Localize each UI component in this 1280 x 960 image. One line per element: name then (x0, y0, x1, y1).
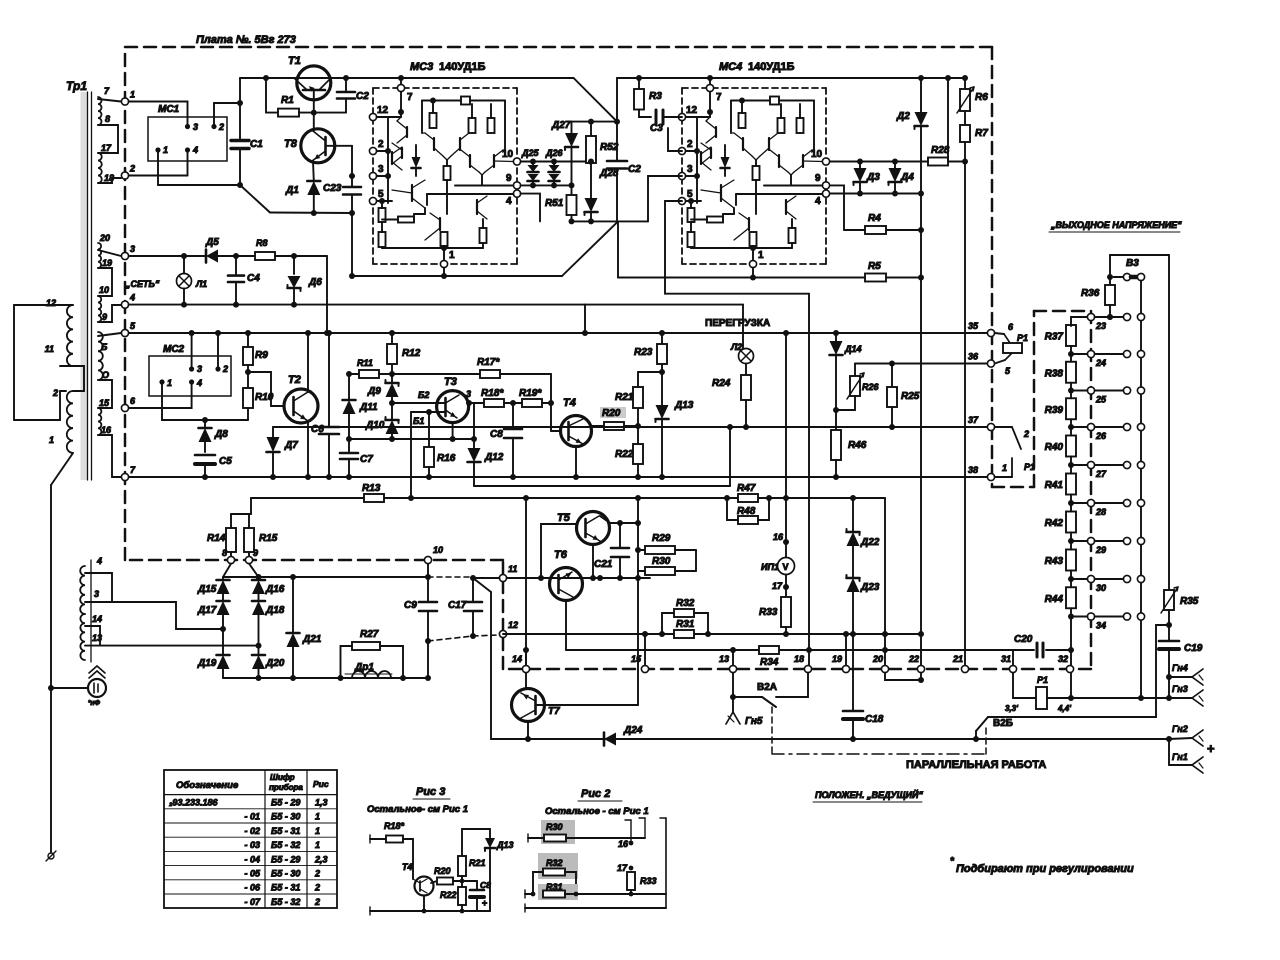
wire МС2 pin3 up (191, 333, 193, 369)
svg-text:R39: R39 (1045, 405, 1064, 416)
board pin 2 (left) (121, 172, 128, 179)
svg-text:8: 8 (105, 114, 110, 124)
svg-text:13: 13 (719, 654, 729, 664)
svg-text:R31: R31 (676, 619, 695, 630)
svg-text:R42: R42 (1045, 518, 1064, 529)
resistor R19* (513, 402, 522, 404)
row 30 wire (1071, 578, 1087, 580)
board pin 35 (right) (987, 329, 994, 336)
wire Б2 row (392, 402, 446, 404)
wire R14/R15 riser (250, 498, 252, 514)
board pin 12 (499, 630, 506, 637)
svg-text:1: 1 (1002, 463, 1007, 473)
wire МС3 pin10 row (521, 161, 591, 163)
svg-text:Б5 - 29: Б5 - 29 (271, 798, 300, 808)
wire y=486 line (474, 485, 730, 487)
wire bottom rail 739 (491, 738, 1169, 740)
svg-text:С3: С3 (650, 123, 663, 134)
svg-text:R13: R13 (362, 483, 381, 494)
svg-text:Т5: Т5 (557, 512, 571, 524)
wire pins 20-22 jumper (885, 673, 921, 680)
wire rail 37 (y=427) (273, 426, 991, 428)
wire МС4 pin10 row (831, 161, 928, 163)
wire pin 14 column up (525, 650, 527, 665)
svg-text:1: 1 (758, 250, 764, 261)
svg-text:R20: R20 (602, 408, 621, 419)
svg-text:20: 20 (99, 233, 110, 243)
svg-text:С17: С17 (448, 600, 467, 611)
svg-text:7: 7 (716, 92, 722, 103)
resistor R30 (638, 570, 645, 572)
resistor R22 (Рис3) (461, 881, 463, 887)
Гн4 connector (1166, 674, 1172, 680)
svg-text:R20: R20 (434, 866, 451, 876)
svg-text:Тр1: Тр1 (66, 79, 87, 93)
wire МС4 pin5 down (665, 201, 809, 294)
svg-text:Плата №. 5Вг 273: Плата №. 5Вг 273 (196, 34, 296, 46)
svg-text:ПЕРЕГРУЗКА: ПЕРЕГРУЗКА (705, 318, 770, 329)
svg-text:Подбирают при регулировании: Подбирают при регулировании (956, 863, 1134, 875)
wire Т2 emitter down (307, 421, 309, 477)
svg-text:22: 22 (908, 654, 919, 664)
resistor R10 (243, 388, 253, 408)
transistor Т4 (Рис3) (415, 877, 434, 896)
terminal 24 (1087, 350, 1094, 357)
wire x=638 column (637, 498, 639, 578)
svg-text:Рис 3: Рис 3 (416, 786, 445, 798)
svg-text:R21: R21 (469, 858, 486, 868)
МС3 internal circuit (400, 92, 402, 117)
svg-text:Гн5: Гн5 (745, 716, 763, 727)
svg-text:R33: R33 (640, 876, 657, 886)
diode Д17 (222, 594, 224, 601)
wire Б1 drop (410, 412, 412, 498)
wire Т5 base (541, 524, 577, 578)
svg-text:R1: R1 (281, 95, 294, 106)
resistor R26 trimmer (854, 364, 856, 377)
diode Д12 (473, 403, 475, 439)
resistor R33 (785, 587, 787, 597)
Тр1 secondary winding 7-8 (98, 97, 102, 125)
op-amp МС3 dashed box (373, 87, 517, 89)
svg-text:R24: R24 (712, 378, 731, 389)
svg-text:Д17: Д17 (197, 605, 217, 616)
svg-text:R7: R7 (975, 128, 988, 139)
resistor R25 (891, 364, 893, 388)
capacitor C20 (1013, 649, 1034, 651)
svg-text:24: 24 (1095, 358, 1106, 368)
wire Т8 collector (313, 113, 315, 131)
resistor R13 (364, 494, 384, 502)
svg-text:Гн4: Гн4 (1172, 663, 1188, 673)
svg-text:Д15: Д15 (197, 584, 217, 595)
svg-text:МС4: МС4 (719, 61, 742, 73)
svg-text:27: 27 (1095, 469, 1107, 479)
svg-text:R23: R23 (634, 347, 653, 358)
svg-text:1: 1 (167, 378, 172, 388)
svg-text:4: 4 (196, 378, 202, 388)
tap 16 to pin 7 (98, 435, 121, 477)
svg-text:3: 3 (193, 122, 198, 132)
wire row3 drop at x=327 (326, 256, 328, 333)
svg-text:R32: R32 (676, 598, 695, 609)
terminal 23 (1087, 313, 1094, 320)
board pin 19 (bottom) (842, 665, 849, 672)
svg-text:- 04: - 04 (244, 854, 260, 864)
svg-text:1: 1 (315, 812, 320, 822)
selector bus vertical (1140, 281, 1142, 698)
МС2 pin 4 (189, 379, 194, 384)
svg-text:Б5 - 31: Б5 - 31 (271, 826, 300, 836)
wire pin8 to bridge (223, 564, 231, 577)
selector top wire (1110, 254, 1169, 256)
svg-text:Др1: Др1 (354, 662, 374, 673)
МС3 pin 2 (369, 147, 376, 154)
svg-text:17: 17 (772, 581, 783, 591)
wire x=809 drop (808, 294, 810, 669)
resistor R5 (865, 274, 886, 282)
svg-text:4,4': 4,4' (1057, 704, 1072, 713)
МС2 pin 1 (159, 379, 164, 384)
transistor Т3 (437, 391, 469, 423)
svg-text:34: 34 (1096, 621, 1106, 631)
МС4 internal circuit (709, 92, 711, 117)
ground terminal ø (48, 853, 54, 859)
svg-text:R27: R27 (360, 629, 379, 640)
svg-text:2: 2 (378, 139, 384, 150)
svg-text:8: 8 (222, 548, 227, 558)
svg-text:Д21: Д21 (302, 634, 322, 645)
link О-15 (98, 380, 112, 408)
diode Д28 (585, 198, 598, 212)
transformer core (81, 92, 88, 480)
output bus vertical right (1168, 255, 1170, 590)
svg-text:2: 2 (314, 897, 320, 907)
svg-text:R41: R41 (1045, 480, 1064, 491)
Тр1 secondary winding Б-О (98, 332, 103, 380)
diode Д23 (852, 546, 854, 578)
Тр1 primary winding I (pins 12,11) (67, 305, 73, 366)
resistor R23 (661, 333, 663, 344)
wire pin 13 column (732, 650, 734, 665)
svg-text:Р1: Р1 (1024, 462, 1035, 472)
svg-text:Шифр: Шифр (270, 773, 295, 782)
svg-text:МС2: МС2 (163, 344, 185, 355)
Тр1 secondary winding 17-18 (98, 153, 102, 183)
svg-text:Д2: Д2 (896, 111, 910, 122)
svg-text:Д9: Д9 (367, 386, 381, 397)
svg-text:С5: С5 (219, 456, 232, 467)
wire rail 5 (y=333) (129, 332, 991, 334)
svg-text:12: 12 (508, 620, 518, 630)
svg-text:15: 15 (99, 398, 110, 408)
svg-text:R4: R4 (868, 213, 881, 224)
board pin 5 (left) (121, 329, 128, 336)
svg-text:³нФ: ³нФ (88, 700, 101, 707)
wire pin31 column (1012, 650, 1014, 665)
link 8-17 (98, 125, 118, 153)
wire ground lead down (50, 485, 52, 688)
board pin 18 (bottom) (804, 665, 811, 672)
connector symbol (plug) bottom-left (88, 679, 106, 697)
svg-text:21: 21 (952, 654, 963, 664)
svg-text:С23: С23 (323, 183, 342, 194)
resistor R37 (1066, 325, 1076, 346)
svg-text:Д20: Д20 (265, 658, 285, 669)
capacitor C21 (619, 523, 621, 548)
svg-text:Д26: Д26 (545, 148, 564, 158)
svg-text:Б5 - 32: Б5 - 32 (271, 840, 300, 850)
svg-text:1: 1 (315, 826, 320, 836)
wire Т7 emitter down (527, 722, 529, 740)
svg-text:9: 9 (506, 173, 512, 184)
Тр1 primary link 11-2 (73, 366, 84, 391)
svg-text:Т2: Т2 (288, 374, 301, 386)
dashed В2А drop (771, 707, 773, 754)
svg-text:R51: R51 (545, 198, 564, 209)
svg-text:Д10: Д10 (365, 420, 385, 431)
wire pin31 below to P1 row (1012, 673, 1014, 698)
svg-text:С21: С21 (594, 559, 613, 570)
wire R17 drop to Т4 base (550, 374, 552, 431)
wire rail 650 (R34 row) (566, 649, 1013, 651)
svg-text:- 03: - 03 (244, 840, 260, 850)
svg-text:1: 1 (130, 90, 135, 100)
wire МС4 pin7 to rail (709, 78, 711, 84)
Тр1 secondary winding 20-19 (98, 243, 101, 268)
board pin 9 (245, 556, 252, 563)
svg-text:Б5 - 29: Б5 - 29 (271, 854, 300, 864)
wire x=885 drop to pin 20 (884, 498, 886, 669)
svg-text:3,3': 3,3' (1005, 704, 1019, 713)
wire bottom node row (270, 212, 352, 215)
svg-text:Л1: Л1 (195, 279, 207, 289)
resistor R47 (724, 495, 730, 501)
svg-text:Д24: Д24 (623, 725, 643, 736)
svg-text:2: 2 (218, 122, 224, 132)
svg-text:Б5 - 30: Б5 - 30 (271, 869, 300, 879)
Рис2 right rail (665, 818, 667, 908)
relay Р1 coil contact 6-5 (995, 333, 1004, 334)
МС4 pin 5 (678, 197, 685, 204)
capacitor C23 (351, 146, 353, 176)
diode Д9 (391, 374, 393, 383)
wire diagonal to Д1 node (240, 185, 270, 213)
resistor R46 (835, 410, 837, 430)
svg-text:R48: R48 (737, 506, 756, 517)
wire МС3 pin1 to rail 276 (443, 268, 445, 276)
resistor R6 trimmer (964, 78, 966, 89)
capacitor C9 (427, 561, 429, 602)
svg-text:36: 36 (968, 352, 979, 362)
wire Т4 emitter (Рис3) (423, 896, 425, 912)
svg-text:С8: С8 (490, 429, 503, 440)
svg-text:МС3: МС3 (410, 61, 433, 73)
jog diagonal to C2 node (574, 78, 617, 122)
svg-text:3: 3 (94, 589, 99, 599)
dash-dot parallel work box (772, 753, 986, 755)
capacitor C17 (472, 578, 474, 602)
board pin 37 (right) (987, 423, 994, 430)
svg-text:Д13: Д13 (674, 400, 694, 411)
row 24 wire (1071, 353, 1087, 355)
wire primary feed left (14, 304, 60, 306)
diode Д1 (307, 181, 320, 195)
resistor R39 (1066, 398, 1076, 419)
resistor R12 (391, 333, 393, 344)
capacitor C8 (Рис3) (462, 880, 477, 882)
svg-text:11: 11 (45, 344, 54, 354)
svg-text:Д1: Д1 (285, 185, 299, 196)
wire Д28 node drop (617, 221, 619, 277)
terminal 29 (1087, 537, 1094, 544)
diode Д10 (391, 403, 393, 420)
svg-text:ПАРАЛЛЕЛЬНАЯ РАБОТА: ПАРАЛЛЕЛЬНАЯ РАБОТА (906, 759, 1046, 771)
svg-text:Д6: Д6 (308, 277, 322, 288)
svg-text:- 07: - 07 (244, 897, 261, 907)
diode Д25 (528, 165, 539, 172)
svg-text:16: 16 (101, 425, 112, 435)
svg-text:31: 31 (1001, 654, 1011, 664)
svg-text:Обозначение: Обозначение (176, 780, 239, 791)
svg-text:R8: R8 (256, 238, 268, 248)
wire x=638 lower column (637, 578, 639, 705)
svg-text:R32: R32 (546, 858, 563, 868)
zener Д6 (293, 256, 295, 274)
svg-text:R35: R35 (1180, 596, 1199, 607)
svg-text:Д11: Д11 (359, 402, 378, 413)
resistor R28 (928, 158, 948, 166)
svg-text:R17*: R17* (477, 357, 500, 368)
board pin 15 (bottom) (641, 665, 648, 672)
capacitor C8 (512, 403, 514, 429)
cluster bottom row (572, 220, 649, 222)
node 17 (785, 575, 787, 588)
svg-text:Б5 - 30: Б5 - 30 (271, 812, 300, 822)
svg-text:26: 26 (1095, 431, 1107, 441)
svg-text:Остальное- см Рис 1: Остальное- см Рис 1 (367, 804, 468, 815)
terminal 27 (1087, 461, 1094, 468)
МС1 pin 2 (211, 124, 216, 129)
svg-text:ПОЛОЖЕН. „ВЕДУЩИЙ“: ПОЛОЖЕН. „ВЕДУЩИЙ“ (815, 789, 923, 800)
resistor R18* (469, 402, 484, 404)
svg-text:R26: R26 (862, 382, 880, 392)
resistor R18* (Рис3) (370, 838, 386, 840)
svg-text:Т4: Т4 (563, 397, 576, 409)
svg-text:Д22: Д22 (860, 537, 880, 548)
diode Д3 (859, 162, 861, 169)
svg-text:С7: С7 (360, 454, 373, 465)
diode Д13 (661, 372, 663, 405)
wire Т8 base right (326, 145, 353, 147)
tap Б to pin 5 (98, 333, 121, 336)
wire x=948 stub (947, 78, 949, 162)
transistor Т5 (577, 512, 610, 545)
board outline (Плата) dashed border (125, 46, 992, 49)
svg-text:R25: R25 (901, 391, 920, 402)
capacitor C2 (616, 122, 618, 161)
capacitor C18 (843, 710, 863, 713)
wire node R21/R23/Д13 (638, 371, 662, 373)
diode Д13 (Рис3) (489, 829, 491, 838)
svg-text:Д18: Д18 (265, 605, 285, 616)
svg-text:Р1: Р1 (1017, 333, 1028, 343)
wire top rail right part (617, 77, 965, 79)
wire pin32 below (1070, 673, 1072, 698)
svg-text:С2: С2 (628, 164, 641, 175)
В2А switch (732, 673, 734, 697)
svg-text:С19: С19 (1184, 643, 1203, 654)
svg-text:Т1: Т1 (288, 55, 301, 67)
svg-text:2: 2 (314, 883, 320, 893)
svg-text:35: 35 (968, 321, 979, 331)
wire pin32 column (1070, 650, 1072, 665)
resistor R8 (255, 252, 275, 260)
wire pin9 to bridge (249, 564, 259, 577)
board pin 31 (bottom) (1009, 665, 1016, 672)
wire МС2 pin4 to pin 6 (129, 382, 192, 408)
svg-text:1: 1 (449, 250, 455, 261)
svg-text:11: 11 (508, 564, 517, 574)
resistor R20 (600, 407, 626, 418)
svg-text:19: 19 (102, 258, 112, 268)
lamp Л2 (739, 349, 754, 364)
svg-text:Б1: Б1 (413, 416, 424, 426)
resistor R41 (1066, 474, 1076, 495)
resistor R27 / choke Др1 (341, 646, 353, 678)
diode Д24 (604, 733, 616, 746)
svg-text:прибора: прибора (269, 783, 303, 792)
wire rail 304 corner to lamp (585, 304, 743, 306)
svg-text:9: 9 (253, 548, 258, 558)
board pin 8 (227, 556, 234, 563)
svg-text:R15: R15 (259, 533, 278, 544)
tap 4 bracket (85, 573, 112, 602)
diode Д18 (258, 594, 260, 601)
svg-text:2: 2 (129, 164, 135, 174)
Рис2 hook 16 (630, 820, 632, 843)
wire Т5 emitter (592, 545, 594, 579)
svg-text:С1: С1 (250, 139, 263, 150)
svg-text:Д7: Д7 (284, 440, 298, 451)
wire primary to ground lead (51, 453, 73, 485)
resistor R21 (637, 408, 639, 426)
resistor R33 (Рис2) (629, 866, 634, 871)
Тр1 secondary winding 10-9 (98, 296, 101, 322)
svg-text:29: 29 (1095, 545, 1106, 555)
resistor R20 (Рис3) (431, 881, 437, 883)
choke Др1 coil (352, 671, 391, 678)
svg-text:Б5 - 32: Б5 - 32 (271, 897, 300, 907)
transistor Т1 (297, 66, 331, 100)
wire pin1 node row (158, 184, 240, 186)
wire x=965 long drop to pin 21 (964, 142, 966, 669)
wire МС4 pin3 link (648, 176, 682, 221)
resistor R51 (571, 185, 573, 195)
capacitor C1 (239, 78, 241, 139)
svg-text:R12: R12 (402, 348, 421, 359)
wire МС4 pin2 stub (668, 128, 682, 151)
svg-text:30: 30 (1096, 583, 1106, 593)
board pin 6 (left) (121, 404, 128, 411)
diode Д14 (835, 333, 837, 341)
diode Д5 (206, 250, 218, 263)
svg-text:1,3: 1,3 (315, 798, 328, 808)
Гн5 connector (732, 697, 734, 712)
resistor R7 (964, 111, 966, 125)
svg-text:2,3: 2,3 (314, 854, 328, 864)
row 29 wire (1071, 540, 1087, 542)
